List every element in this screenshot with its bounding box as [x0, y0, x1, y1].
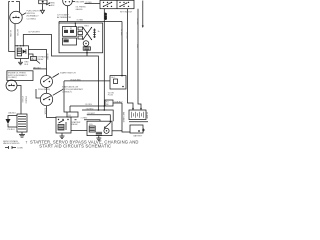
wire starter to battery cable — [112, 130, 122, 132]
wire y115 to starter top — [87, 115, 111, 122]
svg-text:VALVE SOLENOID: VALVE SOLENOID — [3, 142, 20, 145]
start switch S2 — [41, 74, 60, 88]
wire key switch down bus — [103, 9, 105, 110]
svg-text:R1: R1 — [64, 28, 66, 30]
svg-text:#11 WHT: #11 WHT — [87, 113, 96, 115]
wire tan blk from callout to chain — [33, 68, 47, 70]
wire left branch from J1 down to relay K1 — [9, 13, 15, 52]
svg-text:#10A BLU: #10A BLU — [114, 101, 123, 104]
wire y106 to bus — [70, 106, 104, 112]
diode D1 beside solenoid — [6, 116, 18, 128]
battery terminal box B2 — [130, 125, 145, 133]
svg-text:GLO: GLO — [111, 77, 116, 79]
oil pressure switch S4 — [6, 80, 17, 91]
relay K1 servo bypass valve relay — [15, 45, 29, 58]
svg-text:CLOSED): CLOSED) — [27, 18, 37, 20]
svg-text:#2 RED: #2 RED — [104, 13, 106, 20]
starter relay K2 — [56, 117, 71, 133]
starter motor M1 — [87, 121, 112, 135]
svg-text:#7B BLU: #7B BLU — [7, 129, 15, 131]
svg-text:#1 RED: #1 RED — [81, 118, 88, 120]
wire S1 bottom to relay K1 — [14, 24, 16, 46]
svg-text:RELAY: RELAY — [72, 123, 79, 126]
svg-text:START SWITCH: START SWITCH — [60, 72, 76, 75]
svg-text:#8 BLK: #8 BLK — [46, 54, 48, 61]
svg-text:CLOSED): CLOSED) — [8, 77, 17, 79]
connector J1 top-left open box — [9, 2, 20, 13]
wire #4 pur/wht from relay top up and right — [23, 35, 98, 111]
svg-text:#3 ORG: #3 ORG — [85, 104, 93, 106]
wire F1 down to open arrow — [42, 4, 44, 11]
svg-text:(NORMALLY: (NORMALLY — [27, 15, 40, 18]
ground below starter motor — [96, 136, 101, 141]
svg-text:GAUGE: GAUGE — [76, 8, 84, 11]
svg-text:BATTERY: BATTERY — [134, 134, 143, 137]
glow plug controller box — [110, 76, 126, 89]
svg-text:BAT CABLE: BAT CABLE — [122, 112, 125, 123]
start aid switch S3 — [40, 89, 63, 105]
alternator box A1 — [59, 22, 103, 56]
svg-text:ALTERNATOR: ALTERNATOR — [57, 16, 71, 19]
wire V2 key switch down to battery plus — [138, 9, 141, 110]
wire #9 vertical down to connector E — [64, 81, 67, 112]
wire oil switch right and down to solenoid — [17, 86, 21, 115]
connector tag TB1 — [31, 57, 41, 64]
svg-text:CONN: CONN — [17, 148, 23, 150]
fuse F1 top with dot — [39, 0, 47, 4]
ground below starter relay K2 — [60, 133, 65, 139]
svg-text:#2 RED: #2 RED — [125, 32, 127, 39]
wire V1b key switch down to battery — [128, 9, 134, 110]
svg-text:START AID CIRCUITS SCHEMATIC: START AID CIRCUITS SCHEMATIC — [39, 144, 111, 149]
wire starter relay to starter motor — [71, 130, 87, 132]
svg-text:#4 PUR: #4 PUR — [16, 29, 18, 36]
svg-text:#9 BLK RED: #9 BLK RED — [70, 79, 81, 81]
stub wire left of start aid switch — [36, 89, 40, 98]
open triangle terminal — [41, 10, 45, 13]
callout box oil pressure text — [7, 71, 33, 81]
gauge circle at top — [63, 0, 75, 6]
leader to RED BLK labels — [46, 3, 50, 6]
svg-text:30 AMP: 30 AMP — [146, 112, 149, 119]
ground below relay K1 — [18, 59, 23, 65]
svg-text:CONTACT): CONTACT) — [62, 90, 72, 93]
svg-text:12V 55 AMP: 12V 55 AMP — [57, 13, 69, 16]
battery B1 — [129, 108, 148, 122]
wire #2 red into key switch — [85, 3, 101, 5]
svg-text:PUSH (MOM): PUSH (MOM) — [38, 89, 50, 91]
servo bypass valve solenoid L1 — [17, 114, 27, 132]
svg-text:#1 RED: #1 RED — [136, 18, 138, 25]
wire V3 short with arrow — [142, 1, 144, 26]
svg-text:#2 RED: #2 RED — [85, 2, 92, 4]
key switch SW1 — [100, 0, 134, 8]
wire relay second output to tag — [29, 54, 34, 57]
wire relay output right to switch chain — [29, 50, 47, 76]
svg-text:REG: REG — [84, 25, 89, 27]
connector box E above starter relay — [67, 112, 78, 117]
svg-text:#4 PUR WHT: #4 PUR WHT — [28, 32, 40, 34]
svg-text:#7 BLU: #7 BLU — [21, 96, 23, 103]
ground below solenoid — [19, 132, 25, 137]
wire gauge down to tan line — [67, 6, 69, 22]
svg-text:#10 RED: #10 RED — [86, 109, 94, 111]
svg-text:KEY SWITCH: KEY SWITCH — [120, 11, 133, 13]
wire #9 blk/red horizontal — [64, 80, 110, 82]
svg-text:#5 TAN: #5 TAN — [120, 29, 123, 36]
legend connector symbol — [5, 146, 16, 149]
svg-text:#6 GRN: #6 GRN — [9, 30, 11, 38]
connector box C10 near battery — [105, 100, 113, 106]
svg-text:TAN BLK: TAN BLK — [33, 66, 42, 69]
battery cable wire — [122, 103, 130, 132]
fuel shutoff switch S1 — [10, 11, 26, 23]
svg-text:#1 BLK: #1 BLK — [44, 108, 46, 115]
svg-text:#7A BLU: #7A BLU — [25, 96, 28, 104]
wire between switches — [46, 88, 48, 94]
svg-text:R2: R2 — [70, 28, 72, 30]
wire y110 to starter top — [82, 110, 113, 121]
wire V1a tan line down to glow plug box — [121, 22, 123, 76]
wire #1 red to starter — [75, 120, 101, 122]
wire #5 tan horizontal — [59, 22, 122, 24]
wire start aid switch down to starter relay K2 — [47, 106, 57, 118]
svg-text:(7A) BLU: (7A) BLU — [8, 112, 16, 115]
svg-text:#5 TAN: #5 TAN — [77, 19, 84, 22]
svg-text:RED WHT: RED WHT — [76, 1, 86, 3]
svg-text:PLUG: PLUG — [108, 95, 114, 97]
svg-text:7: 7 — [26, 140, 28, 144]
